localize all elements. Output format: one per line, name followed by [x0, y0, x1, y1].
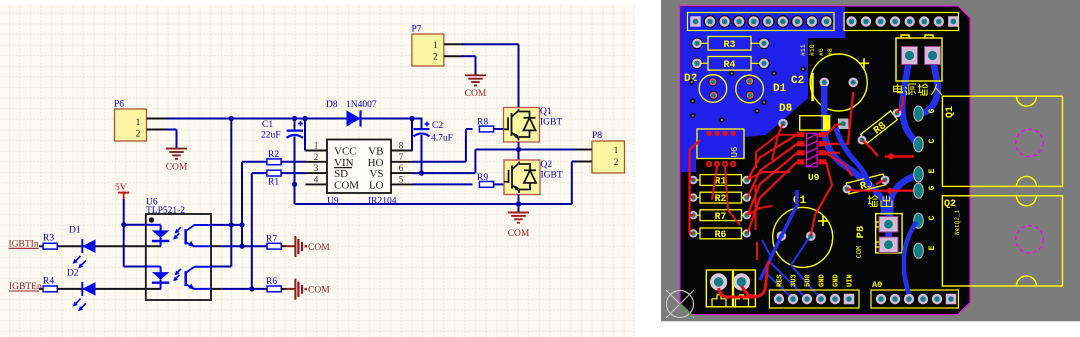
wire C1 to COM node — [294, 137, 296, 205]
wire R9 to Q2 gate — [494, 183, 505, 185]
svg-text:SD: SD — [334, 168, 348, 180]
pcb bottom pad row right — [871, 290, 958, 308]
pcb resistor R9 silk — [846, 174, 886, 196]
capacitor C1 22uF — [261, 119, 303, 141]
svg-text:Q1: Q1 — [540, 107, 552, 117]
svg-text:G: G — [928, 185, 937, 190]
capacitor C2 4.7uF — [414, 121, 453, 144]
svg-text:COM: COM — [334, 179, 359, 191]
pcb vias on pour — [689, 66, 806, 122]
connector P8 — [592, 131, 625, 173]
svg-text:R9: R9 — [477, 173, 488, 183]
pcb power connector 电源输入 — [896, 35, 942, 81]
svg-text:RES: RES — [777, 274, 785, 287]
transistor Q1 IGBT — [504, 107, 563, 142]
pcb top hash labels — [800, 44, 834, 56]
wire 5V to U6 anodes — [124, 199, 146, 267]
P7 pin 2 — [444, 55, 463, 57]
junction R2 collector tap — [239, 222, 244, 227]
junction R2 output node — [239, 244, 244, 249]
svg-text:R4: R4 — [43, 277, 54, 287]
pcb diode D2 package — [684, 73, 727, 102]
pcb resistor R6 — [689, 228, 751, 240]
wire R7 to COM port — [281, 245, 295, 247]
svg-text:C1: C1 — [262, 120, 273, 130]
power port 5V — [115, 183, 129, 200]
U9 designator and value — [327, 197, 397, 207]
resistor R4 — [43, 277, 57, 292]
svg-text:R4: R4 — [723, 60, 735, 71]
pcb diode D1 package — [736, 75, 787, 103]
svg-text:P8: P8 — [592, 131, 602, 141]
pcb header row 2 — [844, 13, 959, 31]
svg-text:5V: 5V — [115, 183, 127, 193]
pcb trace blue mid arc — [836, 128, 869, 186]
pcb bottom pad row left — [769, 290, 859, 308]
svg-text:G: G — [928, 108, 937, 113]
junction rail C1 — [292, 116, 297, 121]
pcb header row 1 — [688, 13, 835, 31]
wire LO to R9 — [413, 183, 473, 185]
svg-text:COM: COM — [856, 246, 864, 259]
copper pour top-left — [681, 7, 845, 172]
P7 pin 1 — [444, 43, 463, 45]
svg-text:6: 6 — [399, 163, 404, 173]
connector P6 — [114, 100, 147, 142]
svg-text:22uF: 22uF — [261, 131, 281, 141]
wire R2 to U9 VIN — [281, 161, 306, 163]
svg-text:R7: R7 — [715, 211, 727, 222]
svg-text:7: 7 — [399, 152, 404, 162]
svg-text:C2: C2 — [432, 121, 443, 131]
net label IGBTEn — [9, 282, 42, 292]
U9 pin 2 VIN — [306, 152, 354, 169]
svg-text:E: E — [928, 245, 937, 250]
pcb trace blue Q2 column — [904, 222, 916, 294]
svg-text:2: 2 — [433, 53, 438, 63]
pcb trace red R8 link — [862, 96, 903, 156]
svg-text:GND: GND — [819, 274, 827, 287]
svg-text:8: 8 — [399, 141, 404, 151]
pcb label COM vertical — [856, 246, 864, 259]
power port COM after R7 — [295, 236, 330, 257]
svg-text:4.7uF: 4.7uF — [431, 134, 453, 144]
pcb igbt pin labels — [928, 108, 937, 250]
svg-text:R7: R7 — [266, 235, 277, 245]
pcb bottom-left connector — [706, 270, 755, 307]
svg-text:U6: U6 — [730, 147, 740, 158]
wire Q2 emitter to ground — [518, 195, 520, 213]
resistor R3 — [43, 234, 57, 250]
pcb trace red opto down — [712, 124, 783, 226]
wire VS to half-bridge node — [413, 150, 519, 174]
pcb trace blue C2 to output — [824, 86, 884, 215]
power port COM after R6 — [295, 279, 330, 300]
svg-text:D8: D8 — [326, 100, 338, 110]
pcb resistor R4 — [691, 57, 770, 71]
pcb U6 footprint — [697, 129, 744, 167]
svg-text:TLP521-2: TLP521-2 — [146, 206, 185, 216]
svg-text:R3: R3 — [723, 40, 735, 51]
pcb resistor R7 — [689, 210, 751, 222]
U9 pin 5 LO — [369, 174, 413, 191]
wire R1 to U9 SD — [281, 172, 306, 174]
svg-text:R1: R1 — [268, 178, 279, 188]
wire R2 left leg — [242, 162, 267, 246]
svg-text:2: 2 — [314, 152, 319, 162]
svg-text:P8: P8 — [855, 226, 867, 239]
junction COM rail Q2 emitter — [516, 201, 521, 206]
resistor R8 — [477, 118, 494, 132]
svg-text:2: 2 — [136, 130, 141, 140]
svg-text:R2: R2 — [715, 193, 727, 204]
net label IGBTIn — [9, 240, 39, 250]
svg-text:VS: VS — [369, 168, 383, 180]
pcb trace red to gates — [884, 153, 914, 193]
svg-text:D2: D2 — [67, 269, 79, 279]
pcb resistor R1 — [689, 175, 751, 187]
svg-text:VB: VB — [368, 146, 383, 158]
wire Q1 emitter to node — [518, 142, 520, 150]
wire VCC rail P6 to C2 — [166, 118, 422, 120]
wire C2 to VS line — [421, 135, 423, 173]
svg-text:U9: U9 — [327, 197, 339, 207]
wire P7 pin1 to Q1 collector — [462, 44, 519, 108]
transistor Q2 IGBT — [504, 160, 563, 195]
svg-text:5U0: 5U0 — [805, 274, 813, 287]
svg-text:1: 1 — [136, 118, 141, 128]
U9 pin 4 COM — [306, 174, 360, 191]
svg-text:E: E — [928, 168, 937, 173]
pcb panel background — [661, 0, 1080, 321]
pcb transistor Q1 package — [942, 96, 1062, 186]
op-amp U9 IR2104 body — [327, 140, 391, 194]
wire COM bottom rail — [295, 162, 577, 205]
junction half-bridge node — [516, 147, 521, 152]
U9 pin 7 HO — [368, 152, 413, 169]
P6 pin 2 — [147, 129, 168, 131]
U6 channel 1 — [146, 225, 267, 247]
junction rail x231 — [229, 116, 234, 121]
svg-text:C: C — [928, 138, 937, 143]
U9 pin 1 VCC — [306, 141, 357, 158]
pcb diode D8 — [778, 103, 848, 130]
resistor R6 — [266, 277, 281, 292]
svg-text:3: 3 — [314, 163, 319, 173]
pcb transistor Q2 package — [942, 196, 1062, 286]
U6 channel 2 — [146, 267, 267, 290]
svg-text:IR2104: IR2104 — [368, 197, 397, 207]
svg-text:D1: D1 — [69, 226, 81, 236]
svg-text:COM: COM — [465, 89, 487, 99]
junction 5V anode split — [121, 222, 126, 227]
wire R6 to COM port — [281, 288, 295, 290]
resistor R2 — [267, 150, 281, 165]
pcb trace blue bottom diagonals — [762, 238, 821, 299]
pcb trace red bottom-left — [719, 262, 770, 297]
svg-text:COM: COM — [308, 243, 330, 253]
svg-text:2: 2 — [614, 158, 619, 168]
pcb capacitor C2 — [791, 53, 869, 113]
svg-text:IGBT: IGBT — [541, 171, 563, 181]
U9 pin 3 SD — [306, 163, 349, 180]
wire IGBTEn line — [39, 288, 161, 290]
svg-text:R6: R6 — [715, 229, 727, 240]
pcb output connector — [876, 214, 902, 253]
pcb bottom silk labels — [777, 274, 883, 290]
wire P6 pin2 to ground — [166, 130, 177, 149]
optocoupler U6 TLP521-2 body — [146, 198, 211, 301]
connector P7 — [412, 25, 444, 67]
schematic sheet background — [0, 5, 635, 337]
svg-text:1: 1 — [433, 41, 438, 51]
resistor R7 — [266, 235, 281, 250]
svg-text:COM: COM — [508, 229, 530, 239]
svg-text:1: 1 — [614, 146, 619, 156]
wire V1 collectors — [211, 119, 231, 267]
pcb trace red fan left — [690, 135, 798, 234]
pcb label power input — [894, 84, 942, 95]
pcb igbt pin pads — [914, 106, 924, 258]
svg-text:COM: COM — [166, 163, 188, 173]
svg-text:IGBT: IGBT — [540, 118, 562, 128]
pcb R8 pads — [858, 109, 902, 145]
wire rail corner to C2 — [421, 118, 423, 129]
svg-text:R6: R6 — [266, 277, 277, 287]
wire IGBTIn line — [39, 245, 161, 247]
wire P7 pin2 to ground — [462, 56, 476, 75]
svg-text:R3: R3 — [43, 234, 54, 244]
wire R1 left leg — [252, 173, 267, 289]
pcb label P8 — [855, 226, 867, 239]
wire node to P8 pin1 — [519, 149, 577, 151]
svg-text:VCC: VCC — [334, 146, 357, 158]
svg-text:#11: #11 — [800, 44, 807, 56]
junction rail U9 VCC branch — [302, 116, 307, 121]
junction R1 output node — [249, 286, 254, 291]
svg-text:R2: R2 — [268, 150, 279, 160]
svg-text:UIN: UIN — [847, 274, 855, 287]
ground COM under Q2 — [508, 213, 530, 240]
P6 pin 1 — [147, 118, 168, 120]
svg-text:#6: #6 — [818, 48, 825, 56]
pcb resistor R8 silk — [861, 111, 899, 145]
pcb board outline — [680, 6, 970, 315]
P8 pin 2 — [576, 161, 592, 163]
diode D8 1N4007 — [326, 100, 377, 127]
svg-text:3U3: 3U3 — [791, 274, 799, 287]
pcb origin marker — [666, 290, 694, 318]
pcb R9 pads — [843, 176, 890, 194]
U9 pin 8 VB — [368, 141, 412, 158]
pcb trace blue power2 — [919, 60, 938, 114]
svg-text:1: 1 — [314, 141, 319, 151]
svg-text:GND: GND — [833, 274, 841, 287]
wire HO to R8 — [413, 129, 473, 162]
junction rail VB branch — [409, 116, 414, 121]
svg-text:D8: D8 — [779, 103, 793, 115]
svg-text:5: 5 — [399, 174, 404, 184]
P8 pin 1 — [575, 149, 592, 151]
U9 pin 6 VS — [369, 163, 412, 180]
junction C1 U9-COM — [292, 182, 297, 187]
ground COM under P7 — [465, 75, 487, 99]
svg-text:1N4007: 1N4007 — [346, 100, 377, 110]
svg-text:U9: U9 — [808, 172, 820, 183]
svg-text:Q2: Q2 — [944, 199, 956, 210]
svg-text:#8: #8 — [827, 48, 834, 56]
pcb trace red extra density — [747, 135, 840, 260]
wire VCC branch to U9 pin1 — [305, 119, 307, 151]
pcb resistor R2 — [689, 192, 751, 204]
svg-text:P6: P6 — [114, 100, 124, 110]
pcb U9 footprint — [797, 132, 826, 183]
pcb label output — [868, 196, 892, 207]
ground COM under P6 — [166, 149, 188, 173]
wire node to Q2 collector — [518, 150, 520, 162]
svg-text:C: C — [928, 215, 937, 220]
LED D1 — [69, 226, 96, 269]
pcb capacitor C1 — [771, 195, 835, 269]
wire collector1 to R2 leg — [211, 224, 242, 226]
junction C2 VS — [419, 171, 424, 176]
LED D2 — [67, 269, 96, 312]
svg-text:HO: HO — [368, 157, 384, 169]
pcb trace blue E to output2 — [888, 176, 915, 243]
pcb trace blue C1 diagonal — [760, 190, 797, 280]
pcb trace red up right — [811, 92, 853, 236]
svg-text:C2: C2 — [791, 75, 804, 87]
svg-text:D1: D1 — [773, 83, 787, 95]
pcb trace blue power1 — [902, 60, 917, 144]
wire VB to rail — [411, 119, 414, 151]
wire R8 to Q1 gate — [494, 128, 504, 130]
svg-text:Q2: Q2 — [541, 160, 553, 170]
svg-text:LO: LO — [369, 179, 384, 191]
svg-text:NetQ2_1: NetQ2_1 — [954, 209, 961, 235]
svg-text:A0: A0 — [872, 280, 882, 290]
svg-text:COM: COM — [308, 286, 330, 296]
svg-text:R8: R8 — [477, 118, 488, 128]
pcb resistor R3 — [691, 37, 770, 51]
svg-text:4: 4 — [314, 174, 319, 184]
resistor R1 — [267, 170, 281, 187]
svg-text:#10: #10 — [809, 44, 816, 56]
svg-text:P7: P7 — [412, 25, 422, 35]
pcb trace red R9 link — [847, 180, 885, 191]
svg-text:Q1: Q1 — [945, 106, 956, 118]
resistor R9 — [477, 173, 494, 187]
junction V1 collector1 — [229, 222, 234, 227]
